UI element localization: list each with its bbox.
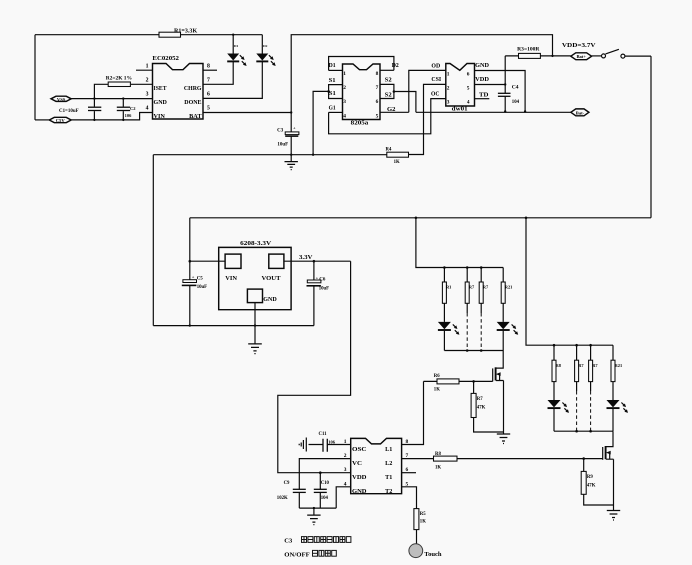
capacitor C5 <box>189 285 191 325</box>
svg-text:D2: D2 <box>263 44 268 48</box>
svg-text:G1: G1 <box>329 106 336 112</box>
resistor R3 <box>505 55 552 57</box>
svg-text:R1=3.3K: R1=3.3K <box>174 28 198 34</box>
svg-text:ON/OFF: ON/OFF <box>284 552 310 558</box>
svg-text:2: 2 <box>343 85 346 91</box>
svg-text:6: 6 <box>207 92 210 98</box>
svg-text:C5: C5 <box>197 276 204 281</box>
capacitor C6 <box>313 261 315 325</box>
top loop D1-D2 <box>329 57 394 71</box>
wire S2 to B- rail <box>394 92 416 113</box>
svg-text:T1: T1 <box>385 474 392 481</box>
svg-text:R3=100R: R3=100R <box>517 47 539 53</box>
transistor Q2 <box>606 431 613 446</box>
capacitor C10 <box>319 471 322 474</box>
capacitor C1 <box>93 99 95 120</box>
svg-text:1: 1 <box>146 63 149 69</box>
svg-text:10uF: 10uF <box>277 143 288 148</box>
svg-text:C2: C2 <box>130 106 136 111</box>
wire VC loop <box>299 459 350 490</box>
svg-text:R1: R1 <box>446 285 451 290</box>
svg-text:C3: C3 <box>277 128 284 133</box>
ground regulator <box>248 344 262 354</box>
wire regulator ground rail <box>153 325 314 327</box>
svg-text:S1: S1 <box>329 78 336 84</box>
svg-text:GND: GND <box>475 63 489 69</box>
svg-text:1K: 1K <box>435 466 441 471</box>
capacitor C9 <box>298 493 300 508</box>
regulator U3 6208-3.3V <box>219 247 291 309</box>
svg-text:R7: R7 <box>578 363 584 368</box>
svg-text:G2: G2 <box>387 107 396 113</box>
svg-text:D1: D1 <box>234 44 239 48</box>
ground Q2 <box>613 508 615 510</box>
resistor R9 pulldown <box>582 457 585 460</box>
svg-text:102K: 102K <box>277 496 288 501</box>
svg-text:GND: GND <box>352 488 367 495</box>
svg-text:S1: S1 <box>329 91 336 97</box>
svg-text:R6: R6 <box>434 374 440 379</box>
port VSS <box>51 96 71 101</box>
op-amp U1 charger EC02052 <box>153 64 204 120</box>
svg-text:VC: VC <box>352 460 362 467</box>
wire CHRG to LED1 <box>203 62 233 85</box>
svg-text:VIN: VIN <box>225 275 237 282</box>
svg-text:1K: 1K <box>394 160 400 165</box>
capacitor C3 <box>290 136 292 155</box>
pin 1 D1 stub <box>329 69 343 71</box>
svg-text:106: 106 <box>328 439 336 444</box>
svg-text:GND: GND <box>154 99 168 106</box>
svg-text:3.3V: 3.3V <box>299 255 313 261</box>
svg-text:1K: 1K <box>420 520 426 525</box>
svg-text:R7: R7 <box>477 397 483 402</box>
wire dashed bank1 mid LEDs <box>466 303 468 313</box>
svg-text:4: 4 <box>343 113 346 119</box>
svg-text:2: 2 <box>146 78 149 84</box>
svg-text:GND: GND <box>263 296 277 303</box>
svg-text:OD: OD <box>431 63 440 69</box>
wire CSI to R4 <box>409 84 446 154</box>
svg-text:VDD=3.7V: VDD=3.7V <box>562 43 596 49</box>
svg-text:ISET: ISET <box>154 85 168 92</box>
wire bank2 riser <box>526 218 613 345</box>
wire GND dw01 <box>475 71 526 112</box>
wire G1 to OC <box>329 99 446 134</box>
IC U2 dw01 <box>446 64 475 107</box>
svg-text:7: 7 <box>406 453 409 459</box>
svg-text:4: 4 <box>467 101 470 106</box>
pin 5 G2 stub <box>380 111 409 113</box>
svg-text:TD: TD <box>479 92 489 98</box>
resistor R21 bank2 <box>612 345 614 360</box>
switch S1 <box>592 55 602 57</box>
svg-text:5: 5 <box>467 86 470 92</box>
ground sideways C11 <box>299 438 306 452</box>
resistor R8 gate <box>402 458 603 460</box>
resistor R28 bank2 <box>590 345 592 360</box>
wire dashed bank2 mid LEDs <box>576 382 578 391</box>
resistor R6 <box>424 380 493 382</box>
capacitor C2 <box>122 99 124 120</box>
resistor R26 bank2 <box>553 345 555 360</box>
svg-text:10uF: 10uF <box>319 286 329 291</box>
resistor R27 bank2 <box>576 345 578 360</box>
wire C5V to VIN <box>71 113 152 120</box>
resistor R16 bank1 <box>443 268 445 283</box>
wire B- rail <box>416 111 571 113</box>
svg-text:6208-3.3V: 6208-3.3V <box>240 240 272 247</box>
svg-text:R8: R8 <box>556 363 562 368</box>
wire VOUT 3.3V <box>284 260 351 262</box>
svg-text:R7: R7 <box>469 285 475 290</box>
svg-text:CSI: CSI <box>431 77 442 83</box>
svg-text:3: 3 <box>343 99 346 105</box>
pin 4 TD stub <box>475 98 490 100</box>
svg-text:D2: D2 <box>392 63 399 69</box>
resistor R18 bank1 <box>480 268 482 283</box>
svg-text:VIN: VIN <box>154 113 166 120</box>
svg-text:6: 6 <box>467 72 470 78</box>
resistor R7 pulldown <box>472 380 475 383</box>
svg-text:47K: 47K <box>477 406 486 411</box>
svg-text:L1: L1 <box>385 446 392 453</box>
resistor R4 <box>387 152 409 157</box>
svg-text:106: 106 <box>125 113 133 118</box>
svg-text:R5: R5 <box>420 512 426 517</box>
resistor R21 bank1 <box>502 268 504 283</box>
svg-text:8: 8 <box>207 63 210 69</box>
wire DONE to LED2 <box>203 62 262 99</box>
svg-text:+: + <box>293 126 296 131</box>
wire L1 to R6 <box>402 381 424 444</box>
resistor R2 <box>94 84 109 98</box>
ground Q1 <box>503 432 505 434</box>
pin 4 G1 stub <box>329 111 343 113</box>
transistor Q3 dual mosfet 8205a <box>343 64 381 120</box>
LED D1 charge <box>232 35 234 54</box>
wire bank1 cathode rail <box>444 350 503 352</box>
wire GND box drop <box>254 303 256 344</box>
svg-text:R8: R8 <box>435 452 441 457</box>
LED D2 done <box>261 35 263 54</box>
pin 8 stub U1 <box>203 69 217 71</box>
wire left ground drop <box>152 155 154 326</box>
wire GND pin drop <box>336 487 351 508</box>
svg-text:OSC: OSC <box>352 446 367 453</box>
wire VSS to GND pin <box>71 98 152 100</box>
node Touch pad <box>409 544 423 558</box>
svg-text:8205a: 8205a <box>351 121 369 127</box>
wire G2 to OD <box>409 70 446 112</box>
LED bank2 right <box>612 382 614 400</box>
wire VDD dw01 <box>475 84 506 86</box>
pin 8 D2 stub <box>380 69 394 71</box>
wire S1 riser <box>313 91 329 154</box>
svg-text:1: 1 <box>447 72 450 78</box>
svg-text:DONE: DONE <box>184 99 202 106</box>
wire BAT riser to top jog <box>291 35 552 132</box>
wire right drop to rail <box>650 56 652 218</box>
svg-text:dw01: dw01 <box>452 106 468 112</box>
svg-text:104: 104 <box>321 496 329 501</box>
svg-text:OC: OC <box>431 91 439 97</box>
pin 7-6 S2 loop <box>380 84 394 98</box>
LED bank1 left <box>443 303 445 322</box>
svg-text:+: + <box>192 275 195 280</box>
port C5V <box>35 119 49 121</box>
pin 6 T1 stub <box>402 472 416 474</box>
resistor R5 <box>414 509 419 530</box>
wire VDD rail <box>190 217 651 219</box>
svg-text:5: 5 <box>207 106 210 112</box>
svg-text:VOUT: VOUT <box>262 275 282 282</box>
svg-text:C9: C9 <box>284 481 290 486</box>
resistor R17 bank1 <box>466 268 468 283</box>
svg-text:L2: L2 <box>385 460 392 467</box>
wire BAT- left rail <box>153 154 386 156</box>
LED bank2 left <box>553 382 555 400</box>
svg-text:R4: R4 <box>386 147 392 152</box>
svg-text:3: 3 <box>146 92 149 98</box>
wire 3.3V to touch VDD <box>278 261 351 473</box>
svg-text:EC02052: EC02052 <box>152 55 179 62</box>
svg-text:VDD: VDD <box>352 474 367 481</box>
wire bank1 riser <box>416 218 503 268</box>
svg-text:C6: C6 <box>319 278 326 283</box>
svg-text:R2=2K 1%: R2=2K 1% <box>106 75 133 81</box>
port Bat- <box>571 109 589 116</box>
svg-text:104: 104 <box>512 100 520 105</box>
svg-text:10uF: 10uF <box>197 285 207 290</box>
wire bank2 cathode rail <box>554 430 613 432</box>
pin 2-3 S1 loop <box>329 85 343 99</box>
svg-text:1K: 1K <box>434 388 440 393</box>
svg-text:C1=10uF: C1=10uF <box>59 109 79 114</box>
ground touch <box>313 508 315 515</box>
svg-text:6: 6 <box>376 99 379 105</box>
svg-text:7: 7 <box>376 85 379 91</box>
svg-text:R9: R9 <box>587 475 593 480</box>
wire cap ground rail <box>299 507 336 509</box>
svg-text:C3: C3 <box>284 538 293 545</box>
svg-text:R21: R21 <box>615 363 623 368</box>
svg-text:8: 8 <box>376 71 379 77</box>
svg-text:C5V: C5V <box>56 118 66 123</box>
svg-text:VDD: VDD <box>475 77 489 83</box>
svg-text:BAT: BAT <box>189 113 202 120</box>
wire left vertical <box>34 35 36 120</box>
svg-text:C4: C4 <box>512 85 519 91</box>
svg-text:VSS: VSS <box>57 97 66 102</box>
IC U4 touch controller <box>351 438 402 493</box>
svg-text:+: + <box>316 275 319 280</box>
wire T2 to R5 <box>402 487 417 509</box>
svg-text:4: 4 <box>146 106 149 112</box>
capacitor C11 <box>309 444 351 446</box>
resistor R1 <box>159 32 181 37</box>
LED bank1 right <box>502 303 504 322</box>
svg-text:D1: D1 <box>329 63 336 69</box>
svg-text:1: 1 <box>343 71 346 77</box>
svg-text:Bat-: Bat- <box>576 110 585 115</box>
wire top charge rail <box>35 34 262 36</box>
pin 1 stub U1 <box>136 69 153 71</box>
capacitor C4 <box>504 56 506 112</box>
svg-text:7: 7 <box>207 78 210 84</box>
svg-text:R21: R21 <box>505 285 513 290</box>
port Bat+ <box>553 55 571 57</box>
svg-text:T2: T2 <box>385 488 392 495</box>
wire rail to VIN <box>189 218 191 280</box>
svg-text:S2: S2 <box>385 93 392 99</box>
wire BAT net <box>203 112 291 114</box>
svg-text:R7: R7 <box>483 285 489 290</box>
svg-text:2: 2 <box>447 86 450 92</box>
svg-text:3: 3 <box>447 100 450 106</box>
svg-text:R7: R7 <box>592 363 598 368</box>
svg-text:47K: 47K <box>587 484 596 489</box>
svg-text:C11: C11 <box>319 432 328 437</box>
transistor Q1 <box>496 351 503 369</box>
svg-text:S2: S2 <box>385 78 392 84</box>
svg-text:Bat+: Bat+ <box>576 54 586 59</box>
svg-text:CHRG: CHRG <box>184 85 202 92</box>
ground C3 <box>290 155 292 162</box>
svg-text:Touch: Touch <box>424 552 442 558</box>
svg-text:C10: C10 <box>321 481 330 486</box>
svg-text:5: 5 <box>376 113 379 119</box>
svg-text:3: 3 <box>344 467 347 473</box>
wire R5 to touch pad <box>416 530 418 544</box>
